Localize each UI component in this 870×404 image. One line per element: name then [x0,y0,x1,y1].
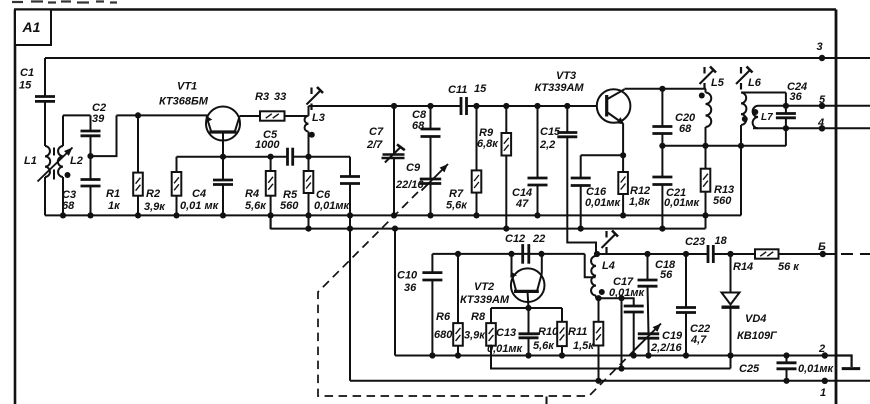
wire node down to line B [621,298,623,368]
resistor R3 [260,111,285,120]
svg-text:68: 68 [412,120,425,132]
junction C24 top pin5 [783,103,789,109]
inductor L1 [45,146,50,177]
svg-text:3,9к: 3,9к [464,330,486,342]
svg-text:1,5к: 1,5к [573,340,595,352]
wire C6 down through rails to bottom line [349,184,351,381]
junction R7 ground [473,212,479,218]
resistor R2 [172,157,182,216]
node VT2 base [525,305,531,311]
resistor R10 [557,322,567,356]
node R1 top [135,112,141,118]
node L4 top [594,251,600,257]
winding-start dot L5 [699,93,705,99]
svg-text:0,01мк: 0,01мк [609,287,646,299]
svg-text:L2: L2 [70,155,83,167]
svg-text:R10: R10 [538,326,559,338]
wire L3 top to IF line [308,106,310,116]
wire IF line left segment [309,105,462,107]
svg-text:C25: C25 [739,363,760,375]
resistor R6 [453,254,463,356]
wire R3 to L3 [285,115,309,117]
svg-text:0,01мк: 0,01мк [798,363,835,375]
wire tank bottom line [662,145,786,147]
wire C18 to C19 [648,286,649,334]
node R4 top [268,154,274,160]
tuning slug symbol of L4 [602,231,619,254]
svg-text:47: 47 [515,198,529,210]
node R9 top [503,103,509,109]
capacitor C1 [35,97,55,102]
wire C23 to R14 [713,253,755,255]
svg-text:22/16: 22/16 [395,179,424,191]
junction C7 ground [391,212,397,218]
svg-text:R3: R3 [255,91,269,103]
transistor VT1 [206,107,241,141]
tuning slug symbol of L3 [307,87,324,110]
variable capacitor C9 [420,179,441,215]
svg-text:L7: L7 [761,112,773,123]
junction L5 R13 [702,143,708,149]
inductor L7 [753,106,758,129]
svg-text:68: 68 [679,123,692,135]
module frame border [14,8,836,11]
svg-text:1000: 1000 [255,139,280,151]
junction C3 ground [87,212,93,218]
capacitor C21 [652,146,672,229]
junction C9 ground [427,212,433,218]
svg-text:68: 68 [62,200,75,212]
capacitor C3 [81,180,101,216]
junction C17 bottom [631,352,637,358]
junction C16 rail2 [578,226,584,232]
node C7 top [391,103,397,109]
capacitor C24 [776,93,796,146]
resistor R1 [133,115,143,215]
capacitor C11 [461,97,467,115]
resistor R4 [266,157,276,230]
junction L2 ground [60,212,66,218]
junction R6 bottom [455,352,461,358]
chassis ground symbol outside frame [836,356,860,369]
resistor R8 [486,323,496,346]
junction C13 bottom [525,352,531,358]
capacitor C8 [421,106,441,137]
svg-text:R2: R2 [146,188,160,200]
node VT2 emitter top [508,251,514,257]
junction R9 rail2 [503,226,509,232]
svg-text:A1: A1 [22,19,41,35]
capacitor C12 [523,244,529,264]
svg-text:2/7: 2/7 [366,139,383,151]
svg-text:0,01 мк: 0,01 мк [180,200,220,212]
junction R4 rail1 [268,212,274,218]
wire ground rail 2 [271,228,706,230]
trimmer capacitor C7 [382,106,405,215]
resistor R13 [701,146,711,229]
svg-text:15: 15 [19,80,32,92]
svg-text:36: 36 [790,91,803,103]
variable arrow C9 [422,164,449,191]
inductor L6 [741,93,746,126]
winding-start dot L3 [309,132,315,138]
svg-text:C10: C10 [397,270,418,282]
wire VT3 emitter lead [622,124,624,156]
wire L3 bottom lead [308,132,310,157]
junction C21 rail2 [659,226,665,232]
wire VT1 base node line [177,156,288,158]
svg-text:680: 680 [434,329,453,341]
svg-text:33: 33 [274,91,286,103]
wire VT2 emitter up lead [511,254,513,274]
svg-text:VT2: VT2 [474,281,494,293]
winding-start dot L6 [742,116,748,122]
svg-text:560: 560 [713,195,732,207]
svg-text:R7: R7 [449,188,464,200]
svg-text:0,01мк: 0,01мк [487,343,524,355]
wire L6 bottom to ground rail [740,125,742,215]
svg-text:39: 39 [92,113,105,125]
svg-text:0,01мк: 0,01мк [664,197,701,209]
winding-start dot L7 [752,109,758,115]
wire top rail to pin 3 [45,57,870,59]
svg-text:2,2: 2,2 [539,139,555,151]
capacitor C6 [340,157,360,184]
junction R2 ground [173,212,179,218]
wire rail2 left-mid bridge down to bottom line C [394,229,396,356]
node pin 2 [822,352,828,358]
node pin B [820,251,826,257]
node L3 R5 C5 C6 [305,154,311,160]
node R7 top [473,103,479,109]
svg-text:2,2/16: 2,2/16 [650,342,682,354]
svg-text:L6: L6 [748,77,762,89]
svg-text:КВ109Г: КВ109Г [737,330,778,342]
wire C1 to L1 [44,101,46,146]
svg-text:560: 560 [280,200,299,212]
junction on line B [618,365,624,371]
variable capacitor C19 [638,334,659,356]
capacitor C14 [528,106,548,215]
node pin 5 [819,103,825,109]
resistor R9 [502,106,512,229]
resistor R7 [472,106,482,215]
junction R12 ground [620,212,626,218]
svg-text:L3: L3 [312,112,325,124]
svg-text:C15: C15 [540,126,561,138]
wire L5 bottom lead [705,127,707,146]
wire C15 bottom down to L4 top node [567,137,596,254]
junction C6 rail1 [347,212,353,218]
wire line C to pin 1 [350,380,870,382]
node pin 1 [822,378,828,384]
wire VT2 top line [432,253,584,255]
svg-text:R6: R6 [436,311,451,323]
wire C17 stub [622,298,634,306]
node VD4 top [727,251,733,257]
node C2 C3 junction [87,153,93,159]
wire C3 top lead [90,156,92,179]
inductor L4 [591,256,596,296]
node C8 top [427,103,433,109]
resistor R5 [304,157,314,229]
svg-text:C9: C9 [406,162,421,174]
wire R10 top elbow [561,308,563,322]
cropped document-number text fragments at top edge [12,2,117,3]
resistor R12 [618,155,628,215]
svg-text:5: 5 [819,94,826,106]
svg-text:3,9к: 3,9к [144,201,166,213]
variable arrow C19 [633,324,661,352]
capacitor C4 [213,157,233,216]
svg-text:5,6к: 5,6к [446,200,468,212]
svg-text:1,8к: 1,8к [629,196,651,208]
trimmer arrow C7 with T-bar tip [385,144,405,162]
junction C25 bottom [783,378,789,384]
resistor R14 [755,249,779,258]
svg-text:КТ339АМ: КТ339АМ [460,294,510,306]
capacitor C25 [777,356,797,381]
junction C14 ground [534,212,540,218]
capacitor C15 [557,106,577,137]
resistor R11 [594,298,604,381]
node VT3 emitter [620,152,626,158]
junction R10 bottom [559,352,565,358]
capacitor C10 [422,254,442,356]
junction node to line B [618,295,624,301]
wire VT2 base bias line [491,307,562,309]
short lead crossing bottom dashed line [546,397,548,404]
wire L2 top lead [62,115,64,146]
node pin 3 [819,55,825,61]
wire node to C6 [309,156,351,158]
wire L2 to C2 [63,114,91,116]
winding-start dot L4 [599,289,605,295]
inductor L2 [58,146,63,177]
svg-text:15: 15 [474,83,487,95]
wire L4 bottom stub [595,296,597,299]
capacitor C17 [624,306,644,356]
svg-text:L4: L4 [602,260,615,272]
junction C10 bottom [429,352,435,358]
node C25 top [783,352,789,358]
node pin 4 [819,125,825,131]
wire IF line right segment to VT3 base [467,105,598,107]
wire L2 bottom to ground rail [62,177,64,215]
junction VD4 line A [727,352,733,358]
svg-text:6,8к: 6,8к [477,138,499,150]
wire ground rail 1 [45,214,741,216]
svg-text:1: 1 [820,387,826,399]
wire L7 top to pin5 line [758,105,786,107]
capacitor C5 [288,148,309,166]
variable-inductance arrow through L1 L2 [38,148,73,182]
wire pin 5 line [786,105,870,107]
svg-text:L5: L5 [711,77,725,89]
junction L4 R11 [595,295,601,301]
node C14 top [534,103,540,109]
wire VT1 collector to R3 [240,115,261,117]
junction R1 ground [135,212,141,218]
capacitor C20 [652,89,672,146]
svg-text:18: 18 [715,235,728,247]
junction C19 bottom [645,352,651,358]
junction C24 bottom pin4 [783,125,789,131]
wire VT2 base lead down [528,291,529,308]
junction C20 C21 [659,143,665,149]
junction R11 bottom line C [595,378,601,384]
svg-text:КТ368БМ: КТ368БМ [159,96,209,108]
junction C4 ground [220,212,226,218]
svg-text:C1: C1 [20,67,34,79]
svg-text:Б: Б [818,241,826,253]
svg-text:C23: C23 [685,236,705,248]
coil L3 [305,116,309,132]
svg-text:0,01мк: 0,01мк [314,200,351,212]
wire line A to pin 2 [395,355,836,357]
tuning slug symbol of L5 [700,67,717,90]
svg-text:R11: R11 [568,326,587,338]
svg-text:C19: C19 [662,330,683,342]
node R6 top [455,251,461,257]
svg-text:1к: 1к [108,200,121,212]
junction C6 rail2 [347,226,353,232]
svg-text:5,6к: 5,6к [533,340,555,352]
node C18 top [644,251,650,257]
capacitor C13 [519,308,539,356]
svg-text:2: 2 [818,343,825,355]
wire VT1 base lead down [222,132,224,157]
wire R8 top elbow [490,308,492,323]
svg-text:5,6к: 5,6к [245,200,267,212]
capacitor C18 [638,254,658,286]
varicap diode VD4 [722,254,740,369]
winding-start dot L2 [65,172,71,178]
svg-text:3: 3 [817,41,823,53]
wire VT2 collector up lead [541,254,543,274]
wire C1 top lead [44,58,46,97]
wire L5 top stub [705,89,707,93]
junction C22 bottom [683,352,689,358]
svg-text:22: 22 [532,233,545,245]
wire R4 bridge rail1 to rail2 [270,215,272,228]
svg-text:56 к: 56 к [778,261,800,273]
wire C2/C3 node up to VT1 input line [91,115,117,156]
svg-text:C12: C12 [505,233,525,245]
wire R8 bottom to line B [491,346,731,369]
node VT2 collector top [538,251,544,257]
wire B line left segment [596,253,708,255]
svg-text:VT3: VT3 [556,70,576,82]
wire L1 to ground rail [44,177,46,215]
svg-text:36: 36 [404,282,417,294]
svg-text:C4: C4 [192,188,206,200]
svg-text:R8: R8 [471,311,486,323]
junction R5 rail1 [305,212,311,218]
wire C8 to C9 [430,137,432,180]
svg-text:L1: L1 [24,155,37,167]
svg-text:VT1: VT1 [177,81,197,93]
wire L6 top to C24 node [741,92,786,94]
junction R13 rail1 [702,212,708,218]
junction L6 bottom [738,143,744,149]
core of L1/L2 transformer [53,148,55,180]
svg-text:R14: R14 [733,261,753,273]
svg-text:C13: C13 [496,327,516,339]
node C15 top [564,103,570,109]
transistor VT2 [510,268,544,302]
svg-text:R1: R1 [106,188,120,200]
svg-text:C7: C7 [369,126,384,138]
svg-text:4,7: 4,7 [690,334,707,346]
node C20 top [659,86,665,92]
A1 designator box [15,10,51,46]
tuning slug symbol of L6 [736,67,753,90]
wire VT3 collector line [625,88,707,90]
svg-text:VD4: VD4 [745,313,766,325]
wire collector line jog down to L4 tap [585,254,596,277]
wire L4 bottom node line [596,297,622,299]
svg-text:4: 4 [817,117,824,129]
junction R5 rail2 [305,226,311,232]
capacitor C23 [708,245,713,263]
wire L4 top stub [595,254,597,256]
node VT1 base C4 [220,154,226,160]
junction bridge rail2 [392,226,398,232]
svg-text:КТ339АМ: КТ339АМ [535,82,585,94]
node C22 top [683,251,689,257]
dashed gang line linking C9 and C19 [318,192,633,396]
inductor L5 [706,93,712,128]
wire input line to VT1 emitter [117,114,208,116]
svg-text:R4: R4 [245,188,259,200]
capacitor C22 [676,254,696,356]
dashed continuation of B line outside frame [841,253,870,255]
svg-text:0,01мк: 0,01мк [585,197,622,209]
svg-text:C11: C11 [448,84,467,96]
svg-text:56: 56 [660,269,673,281]
capacitor C16 [571,155,591,228]
wire emitter node to C16 [581,154,623,156]
transistor VT3 [597,89,631,124]
wire R14 to pin B [779,253,837,255]
wire L7 bottom to pin 4 [753,127,870,129]
capacitor C2 [81,115,101,156]
